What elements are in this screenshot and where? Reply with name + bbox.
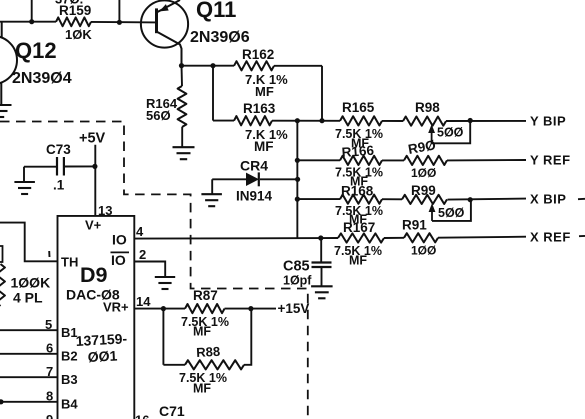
svg-text:1ØK: 1ØK: [65, 27, 92, 42]
svg-text:R88: R88: [196, 344, 221, 360]
wire: B1 input: [0, 329, 58, 331]
stray tick mark near TH: [48, 251, 50, 257]
svg-text:ØØ1: ØØ1: [87, 347, 118, 365]
wire: R168 to R99: [382, 198, 402, 200]
wire: top-left horizontal rail to R159: [0, 21, 56, 23]
svg-text:Y REF: Y REF: [530, 153, 571, 168]
capacitor C85 10pf: [312, 263, 332, 268]
resistor R159 10K: [56, 17, 91, 26]
svg-text:16: 16: [135, 413, 149, 419]
svg-text:MF: MF: [255, 84, 274, 99]
wire: collector node rail to R162: [182, 65, 235, 67]
resistor R87 7.5K 1% MF: [185, 304, 225, 313]
node: Y REF row junction on bus: [295, 158, 300, 163]
node: Y BIP row / bus junction: [295, 118, 300, 123]
transistor Q12 2N3904 (circle mostly cut off at left edge): [0, 22, 17, 105]
wire: C85 top lead: [320, 238, 322, 262]
ground (C85): [311, 286, 333, 298]
wire: to X BIP terminal: [448, 199, 527, 200]
wire: R167 to R91: [384, 237, 404, 239]
wire: C73 left plate to ground: [24, 166, 57, 168]
wire: stub going up from base junction: [118, 0, 120, 22]
node: R87/R88 right junction: [248, 306, 253, 311]
svg-text:R99: R99: [411, 183, 436, 198]
svg-text:VR+: VR+: [103, 300, 129, 315]
svg-text:MF: MF: [193, 382, 211, 396]
wire: vertical from R162 down to Y BIP row: [321, 66, 323, 121]
svg-text:2N39Ø4: 2N39Ø4: [12, 70, 72, 87]
svg-text:2: 2: [139, 247, 146, 262]
diode CR4 1N914: [246, 172, 259, 186]
wire: B4 input: [0, 401, 58, 403]
wire: R88 left branch down: [162, 309, 164, 365]
resistor R88 7.5K 1% MF: [185, 360, 244, 369]
svg-text:1ØØ: 1ØØ: [411, 166, 436, 180]
node: R98 output junction: [468, 118, 473, 123]
svg-text:5ØØ: 5ØØ: [438, 206, 465, 220]
svg-text:C85: C85: [283, 259, 310, 275]
svg-text:4: 4: [136, 224, 144, 239]
wire: R88 right branch up: [244, 309, 251, 365]
wire: R98 wiper tie to output: [432, 121, 471, 144]
resistor R91 100: [404, 233, 438, 242]
resistor R166 7.5K 1% MF: [340, 156, 382, 165]
ground (CR4 anode): [201, 194, 222, 206]
capacitor C73 .1: [57, 157, 64, 176]
wire: to Y BIP terminal: [446, 120, 526, 122]
svg-text:MF: MF: [254, 139, 274, 154]
wire: X REF row (DAC IO pin 4 net): [134, 237, 320, 240]
svg-text:1ØØK: 1ØØK: [11, 275, 51, 291]
ground (pin 2 IO-bar): [155, 277, 175, 289]
svg-text:B3: B3: [61, 372, 78, 387]
wire: CR4 anode down to ground: [211, 179, 213, 194]
node: R87/R88 left junction: [161, 306, 166, 311]
svg-text:R167: R167: [343, 220, 375, 235]
wire: R164 to ground: [181, 127, 183, 147]
svg-text:IO: IO: [111, 252, 126, 268]
svg-text:+15V: +15V: [278, 301, 310, 316]
svg-text:CR4: CR4: [240, 158, 268, 174]
wire: pin 14 VR+ lead: [134, 308, 185, 310]
svg-text:C73: C73: [46, 142, 71, 157]
node: junction on B4 wire at left edge: [0, 399, 4, 404]
svg-text:MF: MF: [193, 325, 211, 339]
resistor R167 7.5K 1% MF: [338, 233, 384, 242]
svg-text:R98: R98: [415, 100, 440, 115]
svg-text:B4: B4: [61, 397, 78, 412]
ground (C73): [14, 182, 35, 194]
wire: to X REF terminal: [438, 237, 526, 238]
Q11 emitter arrow (PNP, pointing into base bar): [159, 4, 168, 11]
node: junction feeding R163 branch: [210, 63, 215, 68]
svg-text:9: 9: [46, 412, 53, 419]
svg-text:R87: R87: [193, 288, 218, 303]
svg-text:37Ø.: 37Ø.: [55, 0, 83, 7]
wire: CR4 cathode to bus: [260, 178, 297, 180]
pin label IO-bar (with overline): [111, 252, 130, 268]
wire: B2 input: [0, 353, 58, 355]
R99 wiper arrow: [429, 203, 436, 221]
wire: R166 to R90: [382, 159, 404, 161]
svg-text:TH: TH: [61, 255, 78, 270]
svg-text:R168: R168: [341, 184, 374, 199]
svg-text:IN914: IN914: [236, 189, 273, 204]
svg-text:IO: IO: [112, 232, 127, 248]
svg-text:Y BIP: Y BIP: [530, 114, 566, 129]
node: X BIP row junction on bus: [295, 197, 300, 202]
wire: X BIP continuation stub at right edge: [578, 198, 585, 200]
resistor R165 7.5K 1% MF: [340, 116, 382, 125]
svg-text:4 PL: 4 PL: [13, 290, 43, 306]
R98 wiper arrow: [428, 124, 435, 143]
wire: +5V down to DAC pin 13: [94, 145, 96, 216]
svg-text:Q12: Q12: [15, 38, 57, 63]
wire: TH pin lead: [0, 223, 58, 262]
potentiometer R99 500: [402, 195, 447, 204]
node: R99 output junction: [468, 197, 473, 202]
node: CR4 cathode junction on bus: [295, 177, 300, 182]
wire: C73 right plate to +5V line: [64, 165, 95, 167]
wire: R87 right to +15V: [225, 308, 277, 310]
svg-text:R91: R91: [402, 218, 427, 233]
wire: Y BIP row from R163 to R165: [272, 120, 340, 122]
svg-text:+5V: +5V: [79, 131, 106, 147]
svg-text:B2: B2: [61, 349, 78, 364]
wire: X REF row right part: [321, 237, 338, 239]
transistor Q11 2N3906: [141, 0, 188, 66]
wire: pin 2 to ground: [134, 262, 165, 277]
node: Y BIP row / R162 branch junction: [319, 118, 324, 123]
svg-text:MF: MF: [349, 254, 367, 268]
wire: R164 branch from collector node: [181, 66, 184, 86]
svg-text:1ØØ: 1ØØ: [411, 244, 436, 258]
svg-text:5ØØ: 5ØØ: [437, 126, 464, 140]
svg-text:14: 14: [136, 294, 151, 309]
svg-text:B1: B1: [61, 325, 78, 340]
resistor network box edge (cut off at left): [0, 246, 3, 262]
resistor R162 7.K 1% MF: [234, 61, 274, 70]
svg-text:R166: R166: [341, 143, 375, 160]
wire: C85 bottom lead: [321, 267, 323, 286]
resistor R168 7.5K 1% MF: [340, 195, 382, 204]
svg-text:.1: .1: [53, 178, 65, 193]
svg-text:137159-: 137159-: [75, 330, 127, 349]
svg-text:1Øpf: 1Øpf: [283, 274, 312, 288]
svg-text:R162: R162: [242, 47, 274, 62]
resistor 100K 4PL (vertical, half visible at left edge): [0, 264, 5, 306]
svg-text:56Ø: 56Ø: [146, 108, 171, 123]
wire: R165 to R98: [382, 120, 403, 122]
wire: CR4 anode lead: [212, 178, 246, 180]
dashed analog-section boundary line: [0, 122, 308, 418]
resistor R164 560 (vertical): [178, 86, 187, 127]
wire: down to ground: [23, 167, 25, 182]
node: C85 junction: [318, 235, 323, 240]
wire: into R163: [213, 120, 234, 122]
wire: vertical bus (common DAC output net): [296, 121, 298, 239]
resistor R90 100: [404, 156, 447, 165]
wire: into R88: [163, 364, 185, 366]
wire: Y REF row to R166: [297, 159, 340, 161]
svg-text:V+: V+: [85, 218, 102, 233]
svg-text:D9: D9: [80, 263, 108, 287]
wire: R159 to Q11 base: [91, 21, 157, 24]
resistor R163 7.K 1% MF: [234, 116, 272, 125]
potentiometer R98 500: [403, 117, 446, 126]
node: C73 junction on +5V line: [92, 164, 97, 169]
svg-text:R163: R163: [243, 101, 276, 116]
ground (Q12 emitter): [0, 105, 12, 117]
svg-text:R165: R165: [342, 100, 375, 115]
svg-text:X REF: X REF: [530, 230, 571, 245]
wire: R163 branch vertical: [212, 66, 214, 121]
svg-text:C71: C71: [159, 403, 185, 419]
wire: R162 right to corner: [274, 65, 322, 67]
node: junction at Q11 base wire: [117, 20, 122, 25]
op-amp/DAC D9 DAC-08 package outline: [58, 216, 135, 419]
svg-text:2N39Ø6: 2N39Ø6: [190, 29, 250, 46]
node: junction on top rail: [29, 19, 34, 24]
wire: B3 input: [0, 376, 58, 378]
node: Q11 collector junction: [179, 63, 184, 68]
svg-text:Q11: Q11: [196, 0, 236, 22]
wire: to Y REF terminal: [447, 159, 526, 161]
svg-text:X BIP: X BIP: [530, 192, 566, 207]
ground (R164): [173, 147, 195, 159]
wire: X REF continuation stub at right edge: [579, 235, 585, 237]
wire: stub going up from junction: [31, 0, 33, 22]
wire: X BIP row to R168: [297, 198, 340, 200]
wire: R99 wiper tie to output: [432, 200, 471, 221]
